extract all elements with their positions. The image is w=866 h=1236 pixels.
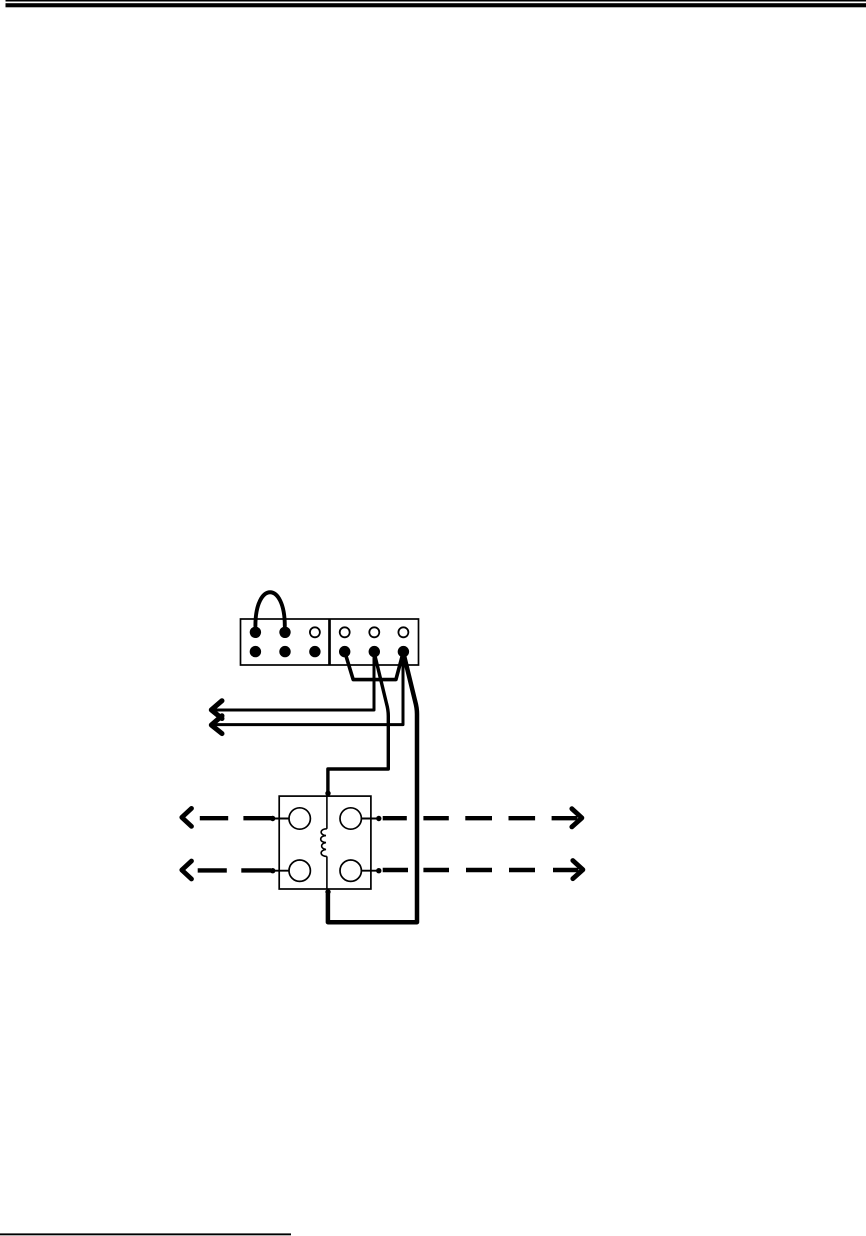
terminal circle bottom-left (289, 860, 310, 881)
pin 6 bottom (filled) (398, 646, 409, 657)
wire: U-link jumper pin4 to pin6 (345, 652, 404, 680)
footnote rule (0, 1233, 291, 1235)
arrowhead upper-left (dashed) (182, 808, 192, 826)
transformer coil L1 (321, 829, 327, 857)
pin 5 top (open) (369, 627, 379, 637)
terminal block J1 outline (241, 619, 419, 665)
arrowhead lower-left (solid wire) (211, 716, 222, 734)
stub top-left (273, 818, 289, 820)
connection dot right-top (376, 816, 381, 821)
junction dot at transformer bottom (325, 889, 330, 894)
wire: pin5 to transformer top terminal (328, 653, 388, 792)
dashed line lower-left (198, 868, 271, 872)
transformer center conductor (lower) (326, 856, 328, 889)
dashed line upper-right (383, 816, 578, 820)
stub top-right (361, 818, 378, 820)
wire: pin6 to transformer bottom terminal (328, 653, 417, 922)
junction dot at transformer top (325, 791, 330, 796)
dashed line upper-left (200, 816, 273, 820)
terminal block divider (328, 619, 331, 666)
terminal circle top-right (340, 808, 361, 829)
pin 4 top (open) (340, 627, 350, 637)
wire: pin6 down and left to lower arrow (212, 652, 403, 725)
transformer T1 box (279, 796, 371, 889)
dashed line lower-right (383, 868, 579, 872)
transformer center conductor (upper) (326, 796, 328, 829)
pin 3 top (open) (310, 627, 320, 637)
pin 3 bottom (filled) (309, 646, 320, 657)
arrowhead upper-right (dashed) (572, 809, 582, 827)
pin 5 bottom (filled) (369, 646, 380, 657)
pin 1 top (filled) (250, 627, 261, 638)
connection dot left-top (270, 816, 275, 821)
jumper wire W1 (arc between pins 1 and 2) (255, 592, 284, 626)
wire: pin5 down and left to upper arrow (212, 652, 374, 710)
pin 6 top (open) (398, 627, 408, 637)
pin 4 bottom (filled) (339, 646, 350, 657)
pin 1 bottom (filled) (250, 646, 261, 657)
arrowhead lower-right (dashed) (573, 861, 583, 879)
pin 2 top (filled) (279, 627, 290, 638)
terminal circle bottom-right (340, 860, 361, 881)
stub bottom-left (273, 870, 289, 872)
terminal circle top-left (289, 808, 310, 829)
connection dot left-bottom (270, 868, 275, 873)
stub bottom-right (361, 870, 378, 872)
pin 2 bottom (filled) (279, 646, 290, 657)
header rule thin (6, 0, 866, 2)
arrowhead upper-left (solid wire) (211, 701, 222, 719)
header rule thick (6, 3, 866, 7)
connection dot right-bottom (376, 868, 381, 873)
arrowhead lower-left (dashed) (182, 861, 192, 879)
